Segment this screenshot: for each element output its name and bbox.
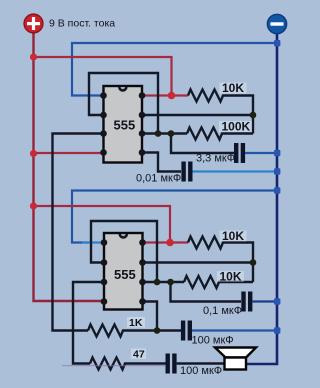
svg-text:100 мкФ: 100 мкФ xyxy=(192,335,234,347)
node blue junction C1 xyxy=(274,150,280,156)
wire IC2 pin3 out down left xyxy=(73,282,104,364)
node blue junction minus top xyxy=(274,40,280,46)
node red junction IC1 pin8 xyxy=(168,92,176,100)
IC U2 555 body xyxy=(104,233,143,310)
IC U1 pins left xyxy=(100,92,107,156)
node blue junction C3 xyxy=(274,298,280,304)
label R4 10K xyxy=(217,271,244,282)
resistor R4 10K xyxy=(184,276,253,288)
IC U1 555 body xyxy=(104,86,143,163)
wire IC1 pin3 out down left xyxy=(53,134,104,331)
node red junction mid left xyxy=(30,150,37,157)
node black junction IC2 pin7 xyxy=(250,259,257,266)
wire blue C4 to rail xyxy=(192,329,277,331)
capacitor C2 0.01uF xyxy=(181,162,185,182)
wire red mid feed xyxy=(34,206,171,243)
node red junction IC2 pin8 xyxy=(166,239,174,247)
wire IC2 pin7 row xyxy=(143,261,254,263)
IC U1 notch xyxy=(118,87,128,92)
wire red IC1 pin8 lead xyxy=(142,94,188,96)
svg-text:100K: 100K xyxy=(222,120,251,134)
svg-text:47: 47 xyxy=(133,349,145,361)
wire to capacitor C3 xyxy=(171,282,242,302)
node black junction IC1 pin7 xyxy=(250,112,257,119)
wire IC2 pin6 row xyxy=(143,281,185,283)
wire IC1 loop pin2-pin6 xyxy=(89,73,158,134)
wire blue rail to IC2 pin1 xyxy=(72,191,277,243)
wire IC1 pin5 to capacitor C2 xyxy=(142,153,181,172)
IC U1 pins right xyxy=(139,92,146,156)
wire navy minus rail xyxy=(246,34,277,365)
label R3 10K xyxy=(220,231,247,242)
svg-text:555: 555 xyxy=(114,118,136,133)
wire IC1 pin6 row xyxy=(142,132,187,134)
svg-text:0,1 мкФ: 0,1 мкФ xyxy=(203,305,242,317)
resistor R2 100K xyxy=(187,128,253,140)
node black junction IC1 pin6 loop xyxy=(155,130,162,137)
capacitor C1 3.3uF xyxy=(234,143,238,163)
IC U2 notch xyxy=(119,234,129,239)
wire to capacitor C1 xyxy=(171,134,234,154)
capacitor C3 0.1uF xyxy=(241,292,245,312)
node black junction IC2 pin6 loop xyxy=(154,279,161,286)
capacitor C5 100uF xyxy=(166,354,170,374)
label R6 47 xyxy=(131,349,146,360)
svg-text:3,3 мкФ: 3,3 мкФ xyxy=(196,153,235,165)
wire node to capacitor C4 xyxy=(157,329,181,331)
wire C5 to speaker xyxy=(177,362,226,364)
wire red IC2 pin8 lead xyxy=(143,241,189,243)
svg-text:555: 555 xyxy=(114,267,136,282)
label R1 10K xyxy=(220,83,247,94)
label R5 1K xyxy=(127,317,145,328)
wire red to IC1 pin4 xyxy=(34,152,104,154)
node black junction IC1 pin6 cap xyxy=(168,130,175,137)
node black junction IC2 pin6 cap xyxy=(167,279,174,286)
svg-text:100 мкФ: 100 мкФ xyxy=(180,365,222,377)
node red junction top left xyxy=(30,53,37,60)
wire purple glow under R6 row xyxy=(62,365,165,367)
svg-text:10K: 10K xyxy=(222,229,244,243)
wire IC1 pin7 row xyxy=(142,114,253,116)
resistor R6 47 xyxy=(90,358,166,370)
battery minus terminal xyxy=(267,14,286,33)
node blue junction C4 xyxy=(274,327,280,333)
resistor R5 1K xyxy=(88,325,157,337)
wire IC2 loop pin2-pin6 xyxy=(91,221,157,282)
wire red rail vertical xyxy=(34,31,105,301)
node black junction 1K out xyxy=(154,327,161,334)
svg-text:10K: 10K xyxy=(222,81,244,95)
wire blue minus to IC1 pin1 xyxy=(72,43,277,96)
wire light blue into IC2 pin1 xyxy=(82,241,104,243)
wire red top feed xyxy=(34,57,172,96)
resistor R3 10K xyxy=(188,237,253,283)
speaker LS1 xyxy=(215,348,256,358)
node red junction lower left xyxy=(30,202,37,209)
IC U2 pins left xyxy=(101,239,108,305)
node blue junction C2 xyxy=(274,168,280,174)
wire blue C1 to rail xyxy=(245,152,277,154)
battery plus terminal xyxy=(24,14,43,33)
label R2 100K xyxy=(219,121,252,132)
svg-text:1K: 1K xyxy=(129,317,143,329)
IC U2 pins right xyxy=(139,239,146,305)
capacitor C4 100uF xyxy=(181,321,185,341)
svg-text:10K: 10K xyxy=(220,270,242,284)
svg-text:0,01 мкФ: 0,01 мкФ xyxy=(136,173,181,185)
node blue junction gnd2 xyxy=(274,187,280,193)
wire IC2 pin5 down to node xyxy=(143,302,158,331)
svg-text:9 В пост. тока: 9 В пост. тока xyxy=(49,18,115,30)
wire light blue C2 to rail xyxy=(193,170,278,172)
wire navy C3 to rail xyxy=(252,300,277,302)
resistor R1 10K xyxy=(188,90,253,134)
